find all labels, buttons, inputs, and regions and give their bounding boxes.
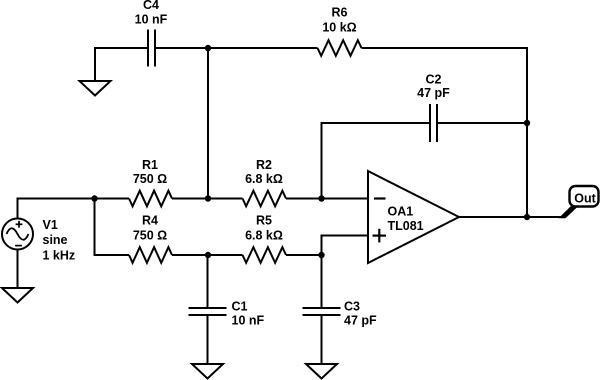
svg-text:R6: R6 [332,6,348,20]
svg-text:750 Ω: 750 Ω [133,229,167,243]
svg-text:6.8 kΩ: 6.8 kΩ [245,172,283,186]
svg-text:C1: C1 [232,300,248,314]
svg-text:47 pF: 47 pF [344,314,377,328]
svg-text:OA1: OA1 [388,205,414,219]
svg-text:TL081: TL081 [388,219,424,233]
svg-text:6.8 kΩ: 6.8 kΩ [245,229,283,243]
svg-text:sine: sine [43,233,68,247]
svg-text:V1: V1 [43,218,58,232]
svg-text:10 nF: 10 nF [232,314,265,328]
svg-text:R2: R2 [256,158,272,172]
svg-text:10 kΩ: 10 kΩ [322,21,356,35]
svg-text:C4: C4 [143,0,159,12]
svg-text:C2: C2 [426,73,442,87]
svg-text:R1: R1 [142,158,158,172]
svg-text:1 kHz: 1 kHz [43,249,76,263]
svg-text:47 pF: 47 pF [417,86,450,100]
svg-text:C3: C3 [344,300,360,314]
svg-text:Out: Out [574,192,596,206]
svg-text:750 Ω: 750 Ω [133,172,167,186]
svg-text:R4: R4 [142,214,158,228]
svg-text:10 nF: 10 nF [135,13,168,27]
svg-text:R5: R5 [256,214,272,228]
